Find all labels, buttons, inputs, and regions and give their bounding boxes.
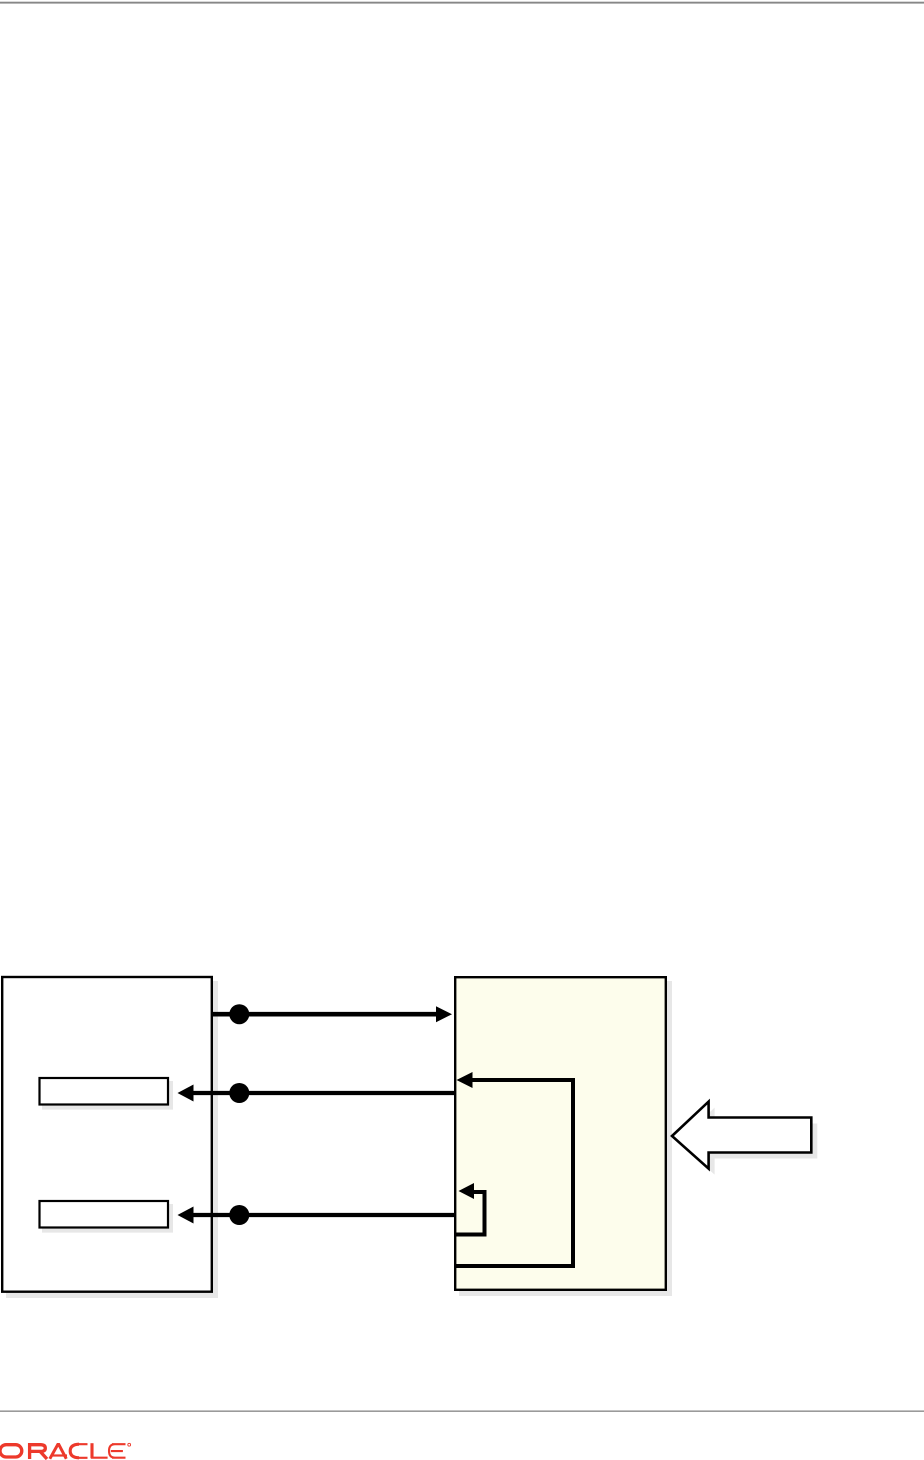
block arrow (pointing left) bbox=[672, 1102, 811, 1169]
arrow 3 dot bbox=[229, 1205, 249, 1225]
letter L bar bbox=[91, 1457, 108, 1459]
inner rect 1 bbox=[40, 1078, 169, 1105]
block arrow shadow bbox=[678, 1108, 817, 1175]
letter A bbox=[50, 1445, 67, 1459]
letter C bars bbox=[76, 1444, 88, 1458]
letter R bbox=[30, 1445, 47, 1459]
letter O bbox=[0, 1445, 22, 1457]
inner rect 2 bbox=[40, 1201, 169, 1228]
left box shadow bbox=[6, 981, 218, 1298]
Oracle logo bbox=[0, 1443, 131, 1459]
big loop polyline bbox=[455, 1080, 573, 1266]
top header rule bbox=[0, 2, 924, 4]
arrow 2 head bbox=[178, 1085, 194, 1102]
registered mark bbox=[128, 1443, 131, 1446]
letter L stem bbox=[90, 1443, 93, 1458]
arrow 1 dot bbox=[229, 1004, 249, 1024]
inner rect 2 shadow bbox=[42, 1204, 173, 1233]
arrow 2 dot bbox=[229, 1083, 249, 1103]
letter A crossbar bbox=[53, 1454, 68, 1456]
right box (server) bbox=[455, 977, 666, 1290]
small loop arrowhead bbox=[459, 1183, 475, 1199]
left box (client) bbox=[2, 977, 212, 1292]
arrow 1 line (left box to right box) bbox=[213, 1012, 438, 1017]
letter C curve bbox=[70, 1444, 79, 1458]
small loop polyline bbox=[455, 1192, 485, 1235]
arrow 3 head bbox=[178, 1207, 194, 1224]
arrow 1 head bbox=[436, 1006, 452, 1022]
letter E bbox=[109, 1444, 126, 1458]
arrow 2 line (right box to inner rect 1) bbox=[191, 1091, 455, 1095]
arrow 3 line (right box to inner rect 2) bbox=[191, 1213, 455, 1217]
footer rule bbox=[0, 1410, 924, 1412]
big loop arrowhead bbox=[457, 1072, 473, 1088]
right box shadow bbox=[459, 981, 672, 1296]
inner rect 1 shadow bbox=[42, 1081, 173, 1110]
